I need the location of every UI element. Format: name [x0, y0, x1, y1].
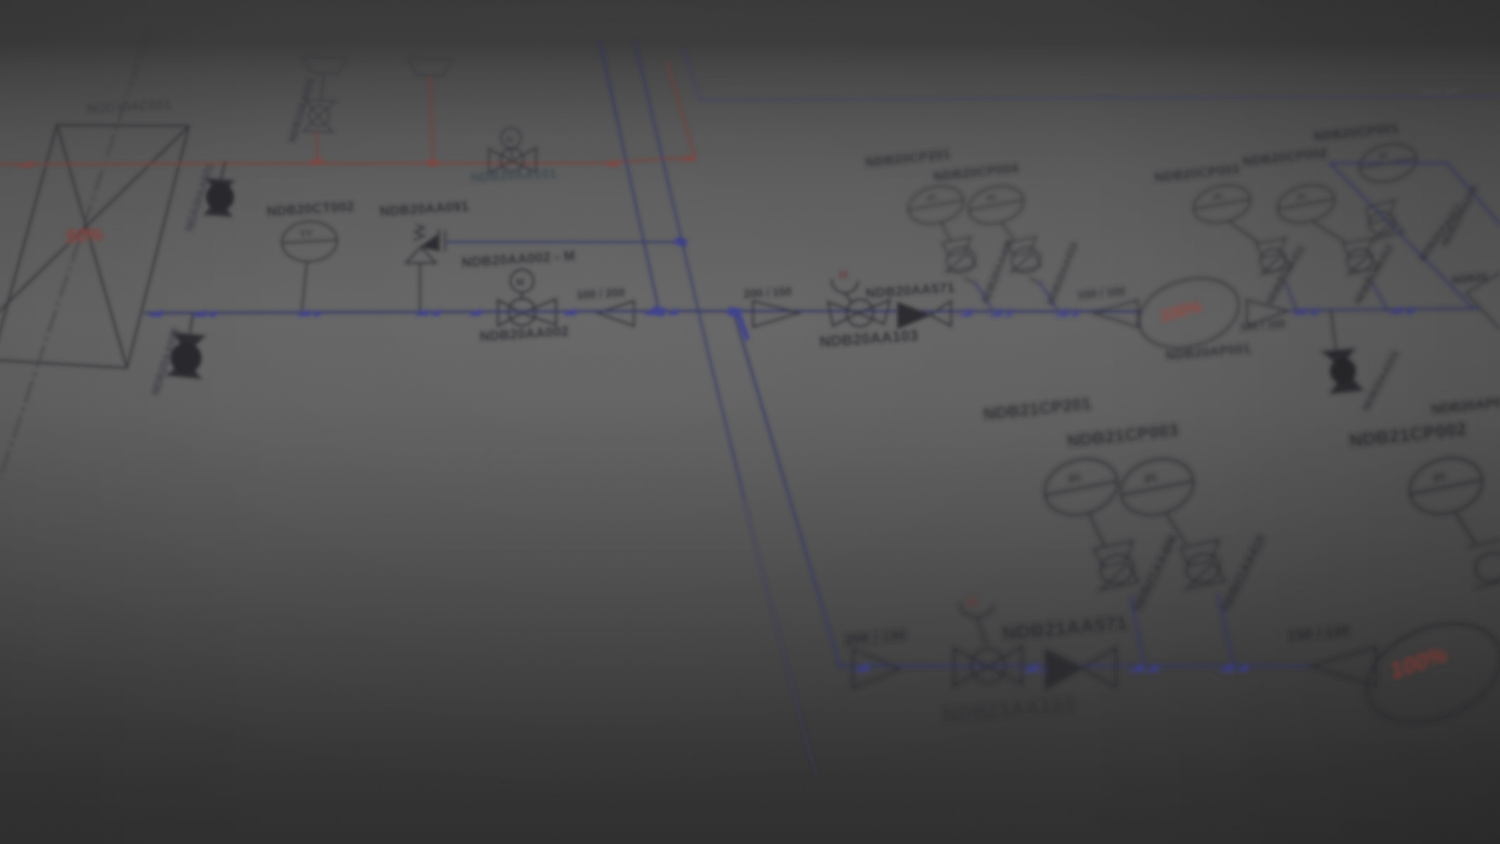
valve NDB10AA001 under funnel 1	[303, 100, 336, 132]
drain funnel 2 (x≈430)	[408, 58, 452, 76]
junction A on header	[651, 306, 665, 317]
junction on riser B	[674, 237, 687, 247]
valve NDB20AA502 (black ball, below blue header)	[168, 313, 204, 378]
PI assembly NDB20CP004	[964, 181, 1043, 283]
reducer 200/150 lower	[853, 649, 900, 688]
pump discharge reducer	[1247, 300, 1288, 326]
reducer 100/200	[598, 301, 634, 326]
heat exchanger NOD10AC001 body	[0, 125, 189, 368]
PI assembly NDB20CP002	[1274, 180, 1378, 284]
control valve NDB20AA101 on red header	[489, 128, 536, 173]
PI assembly NDB20CP003	[1190, 180, 1291, 284]
red flow arrows on header	[18, 154, 695, 168]
PI assembly NDB21CP002	[1403, 450, 1500, 588]
stub to header	[975, 282, 993, 311]
blue cold main header	[145, 311, 1140, 313]
reducer 150/100 lower (pump2 suction)	[1311, 647, 1376, 686]
pump NDB20AP001	[1131, 267, 1247, 359]
riser C (header junction down to lower line)	[734, 313, 840, 666]
red riser to top corner	[667, 62, 695, 157]
valve NDB20AA103 with H actuator	[828, 280, 890, 327]
lower blue pipeline	[840, 665, 1311, 668]
PI assembly NDB20CP001 on loop	[1356, 139, 1421, 240]
motor valve NDB20AA002	[498, 270, 556, 327]
red stem drain funnel 2	[430, 77, 433, 163]
relief valve NDB20AA091	[406, 225, 445, 310]
instrument TT NDB20CT002	[281, 220, 338, 310]
header arrows right section	[958, 309, 1078, 317]
reducer 150/100 (pump1 suction)	[1094, 300, 1138, 327]
valve NDA30AA501 (black ball, on red header stub)	[205, 162, 233, 216]
reducer 200/150	[753, 301, 799, 327]
riser B (long pipe crossing header)	[635, 42, 744, 498]
drain funnel 1 (top, x≈324)	[303, 57, 347, 100]
faint sheet border line	[700, 76, 1500, 80]
valve NDB21AA103 with H actuator	[954, 604, 1022, 686]
blue recirculation loop (box)	[1330, 163, 1500, 309]
PI assembly NDB20CP201	[904, 181, 978, 283]
riser A (top to header junction)	[600, 41, 659, 311]
blue top-right frame pipe	[683, 47, 1500, 100]
far right pipe stub	[1466, 273, 1500, 329]
black valve below header (NDB20AA201)	[1323, 311, 1362, 393]
flow arrow marks on header	[148, 308, 655, 317]
blue branch line from AA091 to riser B	[447, 241, 681, 243]
PI assembly NDB21CP201	[1038, 451, 1139, 590]
blue header continues right	[1288, 309, 1480, 311]
pump NDB21AP001	[1352, 605, 1500, 741]
check valve NDB20AA571	[898, 301, 951, 328]
red hot pipe header	[0, 62, 695, 164]
check valve NDB21AA571	[1046, 648, 1116, 689]
PI assembly NDB21CP003	[1114, 451, 1225, 589]
stub to header	[1040, 282, 1058, 311]
junction C on header	[727, 307, 741, 318]
dash-dot centerline	[0, 30, 149, 478]
red stem valve NDB10AA002	[316, 131, 318, 162]
